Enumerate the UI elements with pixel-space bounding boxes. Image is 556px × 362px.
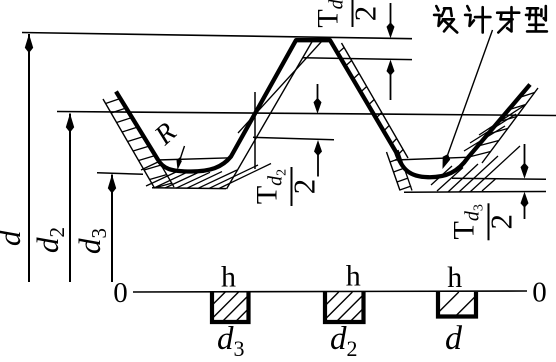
d level line (major diameter) <box>22 33 412 39</box>
R arrowhead <box>177 157 182 170</box>
leader arrowhead <box>443 154 451 169</box>
dimension line d2 <box>69 114 71 283</box>
Td/2 lower arrow shaft <box>390 72 392 100</box>
h box above d <box>438 292 476 317</box>
dimension line d3 <box>111 175 113 283</box>
axis label d <box>0 230 27 246</box>
Td/2 up arrowhead <box>387 60 395 76</box>
rungs below centre-right flank <box>390 158 401 162</box>
dimension line d <box>28 34 30 282</box>
svg-text:0: 0 <box>113 277 128 309</box>
label R (root radius) <box>148 117 182 152</box>
R leader <box>179 146 185 163</box>
label Td/2 fraction (crest tolerance) <box>312 0 383 28</box>
h box above d3 <box>212 292 249 322</box>
svg-text:h: h <box>447 261 462 294</box>
Td3/2 lower arrow shaft <box>524 204 526 219</box>
hatch lines, right valley tolerance zone <box>431 166 452 185</box>
Td2/2 up arrowhead <box>314 140 322 156</box>
thick design tooth profile <box>116 40 530 177</box>
B3 ladder rungs <box>338 48 344 53</box>
svg-text:2: 2 <box>348 6 383 22</box>
d3-Td3/2 lower limit line <box>404 191 546 194</box>
svg-text:0: 0 <box>532 277 547 309</box>
d3 level line right segment <box>452 178 546 179</box>
leader line from design-profile text <box>448 30 493 155</box>
B1 ladder rungs <box>106 99 121 104</box>
arrowhead d <box>25 34 33 53</box>
CJK char 设 (design) <box>434 6 457 32</box>
right valley zone left edge <box>387 152 401 191</box>
d2 pitch level line <box>57 112 556 116</box>
hatch lines, left valley tolerance zone <box>146 172 176 186</box>
B2 rail offset right of centre-left flank <box>227 40 314 189</box>
right valley root chord line <box>395 157 466 160</box>
zero axis line <box>133 291 527 292</box>
label Td2/2 fraction (pitch tolerance) <box>251 167 322 206</box>
arrowhead d2 <box>66 114 74 133</box>
label Td3/2 fraction (root tolerance) <box>448 203 519 240</box>
axis label d3 <box>72 228 111 254</box>
Td/2 upper arrow shaft <box>390 3 392 26</box>
d3 level line left segment <box>97 173 143 174</box>
Td2/2 lower arrow shaft <box>317 152 319 177</box>
Td3/2 down arrowhead <box>521 163 529 179</box>
B4 ladder rungs <box>519 93 534 98</box>
B4 thin rail parallel to right tooth flank <box>482 88 538 163</box>
svg-text:h: h <box>221 261 236 294</box>
svg-text:2: 2 <box>287 179 322 195</box>
d2-Td2/2 lower limit line <box>253 137 334 140</box>
B1 thin rail parallel to left flank <box>103 99 155 188</box>
arrowhead d3 <box>108 175 116 194</box>
svg-text:d: d <box>445 320 463 357</box>
left valley root chord line <box>157 158 231 160</box>
Td2/2 upper arrow shaft <box>317 84 319 101</box>
vertical extension tick at pitch line <box>254 92 256 169</box>
h box above d2 <box>325 292 364 322</box>
left flank extension below root arc <box>158 159 175 187</box>
centre-right flank extension below arc <box>398 150 412 191</box>
svg-text:h: h <box>346 260 361 293</box>
d-Td lower limit line at crest <box>303 58 412 60</box>
Td2/2 down arrowhead <box>314 98 322 114</box>
Td3/2 up arrowhead <box>521 192 529 208</box>
axis label d2 <box>30 227 69 253</box>
svg-text:2: 2 <box>484 214 519 230</box>
thin construction line crossing centre-left flank <box>238 41 322 133</box>
Td3/2 upper arrow shaft <box>524 144 526 166</box>
B3 thin rail parallel to centre-right flank <box>342 43 409 158</box>
Td/2 down arrowhead <box>387 22 395 38</box>
svg-text:d: d <box>0 230 27 246</box>
CJK char 型 (profile) <box>526 6 547 31</box>
CJK char 计 <box>465 6 490 32</box>
CJK char 牙 (tooth) <box>497 7 519 32</box>
left valley lower tolerance line <box>152 187 226 190</box>
